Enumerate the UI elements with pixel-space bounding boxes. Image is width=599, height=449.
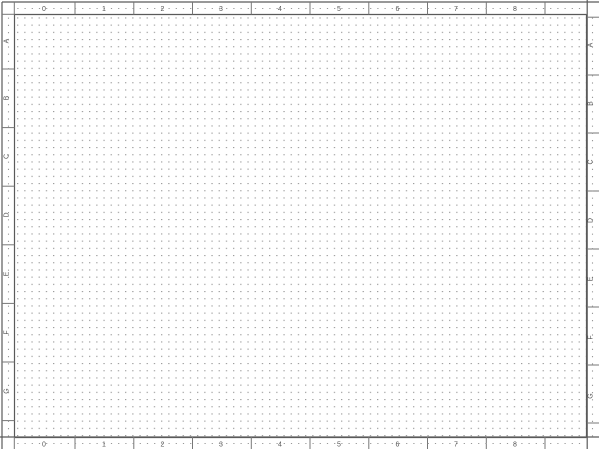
svg-text:G: G bbox=[4, 388, 11, 393]
svg-text:0: 0 bbox=[42, 442, 46, 449]
svg-text:4: 4 bbox=[278, 442, 282, 449]
svg-text:G: G bbox=[588, 393, 595, 398]
svg-text:B: B bbox=[588, 101, 595, 106]
svg-text:8: 8 bbox=[513, 442, 517, 449]
svg-text:0: 0 bbox=[42, 6, 46, 13]
svg-text:A: A bbox=[4, 38, 11, 43]
svg-text:E: E bbox=[588, 276, 595, 281]
svg-text:C: C bbox=[588, 159, 595, 164]
svg-text:D: D bbox=[588, 218, 595, 223]
svg-text:2: 2 bbox=[161, 6, 165, 13]
svg-text:C: C bbox=[4, 154, 11, 159]
svg-text:B: B bbox=[4, 95, 11, 100]
svg-text:7: 7 bbox=[454, 6, 458, 13]
svg-text:5: 5 bbox=[337, 442, 341, 449]
svg-text:3: 3 bbox=[219, 442, 223, 449]
svg-text:2: 2 bbox=[161, 442, 165, 449]
svg-text:4: 4 bbox=[278, 6, 282, 13]
svg-text:A: A bbox=[588, 42, 595, 47]
svg-text:5: 5 bbox=[337, 6, 341, 13]
svg-text:8: 8 bbox=[513, 6, 517, 13]
svg-text:F: F bbox=[4, 330, 11, 334]
svg-text:1: 1 bbox=[102, 6, 106, 13]
svg-text:6: 6 bbox=[396, 6, 400, 13]
svg-text:1: 1 bbox=[102, 442, 106, 449]
svg-text:6: 6 bbox=[396, 442, 400, 449]
svg-text:3: 3 bbox=[219, 6, 223, 13]
svg-text:D: D bbox=[4, 212, 11, 217]
svg-text:E: E bbox=[4, 271, 11, 276]
svg-text:7: 7 bbox=[454, 442, 458, 449]
svg-text:F: F bbox=[588, 335, 595, 339]
